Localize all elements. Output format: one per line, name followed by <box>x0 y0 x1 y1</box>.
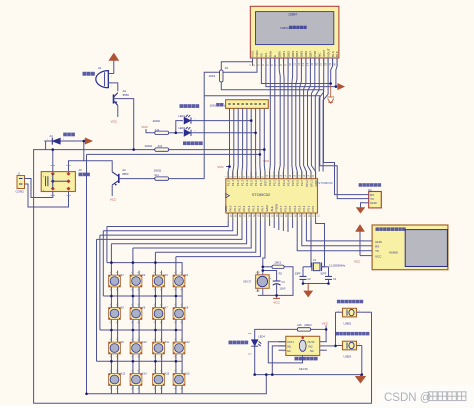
label LED (Chinese, LED4) <box>229 341 249 345</box>
resistor A13 200ohm <box>145 144 169 151</box>
pushbutton K9 <box>109 338 125 374</box>
wire misc MCU stubs <box>270 221 293 233</box>
label KEY20 <box>299 367 308 371</box>
label LCD screen (Chinese) 12864 LCD <box>280 26 307 30</box>
svg-text:VOUT: VOUT <box>326 48 330 57</box>
wire relay coil top / diode net <box>44 140 84 142</box>
svg-text:GND: GND <box>375 240 383 244</box>
svg-text:DB3: DB3 <box>291 51 295 57</box>
wire backlight net with VCC arrow <box>266 58 345 90</box>
wire ground net horizontal <box>255 374 362 376</box>
svg-text:LED1: LED1 <box>178 114 185 118</box>
wire USB3 pin2 to ground net <box>361 346 363 375</box>
svg-text:A13: A13 <box>158 144 163 148</box>
svg-text:GND: GND <box>314 180 318 186</box>
svg-text:P2.3: P2.3 <box>297 205 301 211</box>
power VCC arrow right (relay net) <box>85 138 93 144</box>
transistor A2 8550 (PNP buzzer driver) <box>114 89 130 117</box>
svg-text:VCC: VCC <box>375 254 382 258</box>
mini ground symbol (LCD) <box>327 84 334 104</box>
svg-text:E: E <box>273 55 277 57</box>
svg-text:P2.0: P2.0 <box>311 205 315 211</box>
svg-text:12864: 12864 <box>280 26 289 30</box>
LED2 <box>178 126 196 136</box>
svg-text:BLA: BLA <box>331 50 335 57</box>
wire MCU stub (P0.2) <box>282 221 284 232</box>
svg-text:OUT2: OUT2 <box>308 340 315 344</box>
pushbutton K6 <box>130 303 146 342</box>
svg-text:NC: NC <box>310 349 314 353</box>
svg-text:K10: K10 <box>142 341 147 344</box>
connector CON2 <box>16 172 25 193</box>
wire keypad column feeds <box>111 244 175 275</box>
pushbutton K1 <box>109 271 125 308</box>
wire relay pins to diode line <box>46 141 84 172</box>
ground arrow (crystal) <box>303 284 329 298</box>
wire buzzer pins <box>108 74 117 92</box>
svg-text:P0.6: P0.6 <box>256 205 260 211</box>
wire 10K1 to download RX <box>221 82 363 195</box>
resistor A12 200ohm <box>153 119 169 134</box>
wire MCU to fingerprint RX <box>302 221 365 246</box>
svg-text:A11: A11 <box>154 173 159 177</box>
svg-text:/RST: /RST <box>322 50 326 57</box>
svg-text:A1: A1 <box>98 66 102 70</box>
svg-text:P1.7: P1.7 <box>259 180 263 186</box>
svg-text:K16: K16 <box>185 373 190 376</box>
svg-text:A6: A6 <box>79 168 83 172</box>
pushbutton K10 <box>130 338 147 374</box>
svg-text:GND: GND <box>370 201 378 205</box>
svg-text:P0.3: P0.3 <box>242 205 246 211</box>
watermark CSDN <box>384 392 466 404</box>
wire LED4 net (VCC-resistor down to ground rail) <box>255 329 298 374</box>
pushbutton K16 <box>173 369 190 394</box>
svg-text:RST: RST <box>263 180 267 186</box>
wire KEY20 IN1 to ground rail <box>272 346 286 375</box>
capacitor C2 30PF <box>295 267 312 284</box>
resistor 10K1 (vertical) <box>209 66 229 82</box>
pushbutton K12 <box>173 338 190 374</box>
label 11.0592MHz <box>329 263 346 267</box>
wire keypad bottom rail <box>87 375 267 394</box>
wire LED feed <box>169 121 183 133</box>
wire resnet pins down to MCU <box>228 108 265 178</box>
svg-text:200Ω: 200Ω <box>145 144 153 148</box>
buzzer A1 <box>96 66 113 88</box>
svg-text:P2.5: P2.5 <box>288 205 292 211</box>
pushbutton K5 <box>109 303 125 342</box>
svg-text:RS: RS <box>264 53 268 57</box>
svg-text:LED2: LED2 <box>178 126 185 130</box>
label diode (Chinese) <box>63 133 75 137</box>
LCD module U4 12864 <box>250 6 339 58</box>
wire A3 emitter to relay net <box>84 161 112 172</box>
svg-text:8550: 8550 <box>123 93 130 97</box>
connector USB2 (lock power) <box>336 308 362 325</box>
wire KEY20 IN2 to USB net <box>327 345 336 347</box>
resistor network RP1 10K <box>226 100 269 109</box>
svg-text:KEY17: KEY17 <box>243 281 251 284</box>
svg-text:K15: K15 <box>165 373 170 376</box>
svg-text:P1.1: P1.1 <box>231 180 235 186</box>
label LED (Chinese) top <box>180 104 200 108</box>
svg-text:P2.1: P2.1 <box>307 205 311 211</box>
svg-text:P0.5: P0.5 <box>251 205 255 211</box>
pushbutton K14 <box>130 369 147 394</box>
wire LED1 to pullup <box>191 120 251 122</box>
fingerprint module U5 AS608 <box>365 225 448 270</box>
svg-text:P3.7: P3.7 <box>300 180 304 186</box>
svg-text:P2.4: P2.4 <box>293 205 297 211</box>
power VCC label (KEY20) <box>322 322 329 330</box>
svg-text:P3.1: P3.1 <box>273 180 277 186</box>
svg-text:P2.7: P2.7 <box>279 205 283 211</box>
wire MCU to fingerprint TX <box>297 221 365 251</box>
power VCC label under A3 <box>110 198 117 202</box>
svg-text:XTL2: XTL2 <box>305 180 309 187</box>
svg-text:): ) <box>224 103 225 107</box>
ground arrow (download) <box>356 203 365 214</box>
wire USB2 to frame <box>362 311 372 313</box>
svg-text:P0.2: P0.2 <box>238 205 242 211</box>
svg-text:P3.3: P3.3 <box>282 180 286 186</box>
svg-text:DB2: DB2 <box>286 51 290 57</box>
label STC89C52 (right of MCU) <box>318 181 333 185</box>
wire P2 net to download TX <box>204 96 363 199</box>
pushbutton K4 <box>173 271 189 308</box>
svg-text:KEY20: KEY20 <box>299 367 308 371</box>
wire bundle LCD data lines to MCU <box>270 58 329 179</box>
svg-text:DB1: DB1 <box>282 51 286 57</box>
wire A3 base + resistor A11 200ohm <box>119 58 257 179</box>
svg-text:VCC: VCC <box>224 206 228 212</box>
svg-text:VCC: VCC <box>111 119 118 123</box>
svg-text:P2.6: P2.6 <box>284 205 288 211</box>
svg-text:VCC: VCC <box>322 322 329 326</box>
svg-text:STC89C52: STC89C52 <box>318 181 333 185</box>
wire KEY20 OUT1 loop <box>268 342 302 363</box>
svg-text:K14: K14 <box>142 373 147 376</box>
svg-text:P2.2: P2.2 <box>302 205 306 211</box>
svg-text:PSEN: PSEN <box>274 204 278 212</box>
svg-text:STC89C52: STC89C52 <box>252 193 270 197</box>
label program download port (Chinese) <box>359 183 382 187</box>
svg-text:P3.4: P3.4 <box>286 180 290 186</box>
svg-text:P1.2: P1.2 <box>236 180 240 186</box>
svg-text:P3.0: P3.0 <box>268 180 272 186</box>
pushbutton K2 <box>130 271 146 308</box>
svg-text:12864: 12864 <box>288 13 297 17</box>
svg-text:XTL1: XTL1 <box>309 180 313 187</box>
svg-text:K11: K11 <box>165 341 170 344</box>
power VCC label (LED supply) <box>142 125 155 133</box>
svg-text:30PF: 30PF <box>320 273 326 276</box>
svg-text:OUT1: OUT1 <box>287 340 294 344</box>
wire A2 base to resistor A13 net <box>114 99 134 150</box>
label MCU system power port (Chinese) <box>336 332 370 336</box>
svg-text:PSB: PSB <box>313 51 317 57</box>
wire keypad row feeders (left verticals) <box>97 227 107 362</box>
svg-text:DB4: DB4 <box>295 51 299 57</box>
wire KEY20 right pin1 to VCC net <box>325 329 327 341</box>
junction dots keypad rails <box>110 261 177 362</box>
label resistor network 10K (Chinese pai zu) <box>210 103 226 107</box>
svg-text:VSS: VSS <box>251 51 255 57</box>
power VCC tap resnet common <box>263 159 269 163</box>
power VCC label (reset) <box>273 295 280 304</box>
svg-text:P0.7: P0.7 <box>261 205 265 211</box>
svg-text:P3.5: P3.5 <box>291 180 295 186</box>
svg-text:P1.3: P1.3 <box>240 180 244 186</box>
svg-text:RX: RX <box>375 245 379 249</box>
power VCC label under A2 <box>111 119 118 123</box>
svg-text:IN1: IN1 <box>287 345 292 349</box>
svg-text:A5: A5 <box>225 66 229 70</box>
svg-text:P1.6: P1.6 <box>254 180 258 186</box>
LCD pin name labels <box>251 48 340 57</box>
svg-text:ALE: ALE <box>270 206 274 211</box>
pushbutton K7 <box>153 303 169 342</box>
crystal Y1 <box>312 259 322 271</box>
svg-text:TX: TX <box>375 249 379 253</box>
svg-text:EA/V: EA/V <box>265 205 269 212</box>
svg-text:200Ω: 200Ω <box>154 169 162 173</box>
transistor A3 8550 <box>112 168 129 196</box>
svg-text:VCC: VCC <box>263 159 269 163</box>
svg-text:AS608: AS608 <box>389 250 398 254</box>
svg-text:BLK: BLK <box>335 50 339 57</box>
svg-text:CSDN @: CSDN @ <box>384 392 431 404</box>
resistor R2 10K2 <box>272 261 284 276</box>
pushbutton K15 <box>153 369 170 394</box>
svg-text:10K1: 10K1 <box>209 74 216 78</box>
svg-text:K12: K12 <box>185 341 190 344</box>
svg-text:K13: K13 <box>121 373 126 376</box>
svg-text:VDD: VDD <box>255 50 259 57</box>
diode A4 <box>47 134 65 145</box>
wire LCD gnd net <box>261 58 332 84</box>
connector J10 (download) <box>363 189 381 208</box>
MCU top pin stubs + numbers + names <box>225 172 318 187</box>
wire KEY20 resistor net <box>311 328 327 330</box>
svg-text:P0.4: P0.4 <box>247 205 251 211</box>
svg-text:A4: A4 <box>50 134 54 138</box>
svg-text:DB6: DB6 <box>304 51 308 57</box>
svg-text:10UF: 10UF <box>280 288 287 291</box>
svg-text:VCC: VCC <box>110 198 117 202</box>
wire XTAL1 <box>310 221 313 267</box>
label relay (Chinese) + A6 <box>79 168 90 176</box>
svg-text:USB2: USB2 <box>344 322 352 326</box>
capacitor C3 10UF (polarized) <box>263 271 286 296</box>
svg-text:VCC: VCC <box>273 300 280 304</box>
pushbutton K8 <box>173 303 189 342</box>
resistor A15 200ohm (lock driver) <box>297 323 312 331</box>
svg-text:P1.5: P1.5 <box>250 180 254 186</box>
power VCC tap at MCU pin1 <box>217 165 230 169</box>
ground arrow (main) <box>355 375 366 384</box>
svg-text:P1.4: P1.4 <box>245 180 249 186</box>
svg-text:8550: 8550 <box>122 172 129 176</box>
svg-text:A15: A15 <box>297 323 302 327</box>
svg-text:P0.0: P0.0 <box>228 205 232 211</box>
svg-text:DB5: DB5 <box>300 51 304 57</box>
label lock power port (Chinese) <box>337 300 363 304</box>
capacitor C3 30PF <box>320 267 337 284</box>
pushbutton KEY17 (reset) <box>243 271 269 296</box>
pushbutton K11 <box>153 338 170 374</box>
svg-text:NC: NC <box>287 349 291 353</box>
svg-text:V0: V0 <box>260 53 264 57</box>
svg-text:P0.1: P0.1 <box>233 205 237 211</box>
svg-text:NC: NC <box>317 52 321 57</box>
wire RST net <box>258 221 293 296</box>
svg-text:P3.2: P3.2 <box>277 180 281 186</box>
wire USB2 pin1 down to USB3 pin1 <box>335 312 337 346</box>
power VCC arrow (fingerprint) <box>356 225 373 256</box>
wire keypad staircase MCU P1 to key matrix <box>97 221 261 257</box>
wire LED2 to pullup <box>191 132 256 134</box>
LCD pin stubs + pin numbers <box>248 58 337 66</box>
wire keypad pull-up net (left long vertical) <box>87 154 260 393</box>
wire MCU to fingerprint GND <box>306 221 365 241</box>
svg-text:VCC: VCC <box>142 125 149 129</box>
svg-text:LED4: LED4 <box>258 335 265 339</box>
wire XTAL2 <box>316 221 325 267</box>
svg-text:200Ω: 200Ω <box>153 119 161 123</box>
relay K1 <box>41 172 75 192</box>
pushbutton K3 <box>153 271 169 308</box>
svg-text:10K(: 10K( <box>210 103 218 107</box>
resistor A11 <box>154 169 169 181</box>
svg-text:30PF: 30PF <box>295 273 301 276</box>
svg-text:VCC: VCC <box>354 259 361 263</box>
svg-text:IN2: IN2 <box>309 345 314 349</box>
svg-text:200Ω: 200Ω <box>304 323 312 327</box>
connector USB3 (system power) <box>336 341 362 358</box>
label LED (Chinese) bottom <box>183 141 203 145</box>
LED4 (vertical, pointing down) <box>248 333 265 354</box>
svg-text:USB3: USB3 <box>344 354 352 358</box>
wire LCD pin1 to 10K1 <box>221 58 252 70</box>
power VCC label (fingerprint) <box>354 259 361 263</box>
label fingerprint module port (Chinese) <box>376 227 406 231</box>
svg-text:10K2: 10K2 <box>274 261 281 265</box>
LED1 <box>178 114 196 124</box>
svg-text:R2: R2 <box>279 271 283 275</box>
svg-text:CON2: CON2 <box>16 190 25 194</box>
svg-text:11.0592MHz: 11.0592MHz <box>329 263 346 267</box>
svg-text:A12: A12 <box>155 128 160 132</box>
wire CON2 to relay <box>25 179 71 208</box>
MCU U1 STC89C52 <box>226 179 318 213</box>
wire relay/A2-base long net + left frame <box>34 150 372 404</box>
label six-pin switch (Chinese) <box>295 357 318 361</box>
svg-text:DB7: DB7 <box>309 51 313 57</box>
svg-text:VCC: VCC <box>217 165 224 169</box>
IC KEY20 (six-pin switch) <box>279 336 327 355</box>
svg-text:DB0: DB0 <box>277 51 281 57</box>
svg-text:P1.0: P1.0 <box>227 180 231 186</box>
wire keypad row rails <box>97 263 183 362</box>
svg-text:P3.6: P3.6 <box>296 180 300 186</box>
power VCC arrow (buzzer supply) <box>109 53 119 74</box>
svg-text:R/W: R/W <box>269 51 273 57</box>
MCU bottom pin stubs + numbers + names <box>224 204 319 221</box>
pushbutton K13 <box>109 369 126 394</box>
label buzzer (Chinese) <box>83 72 95 76</box>
